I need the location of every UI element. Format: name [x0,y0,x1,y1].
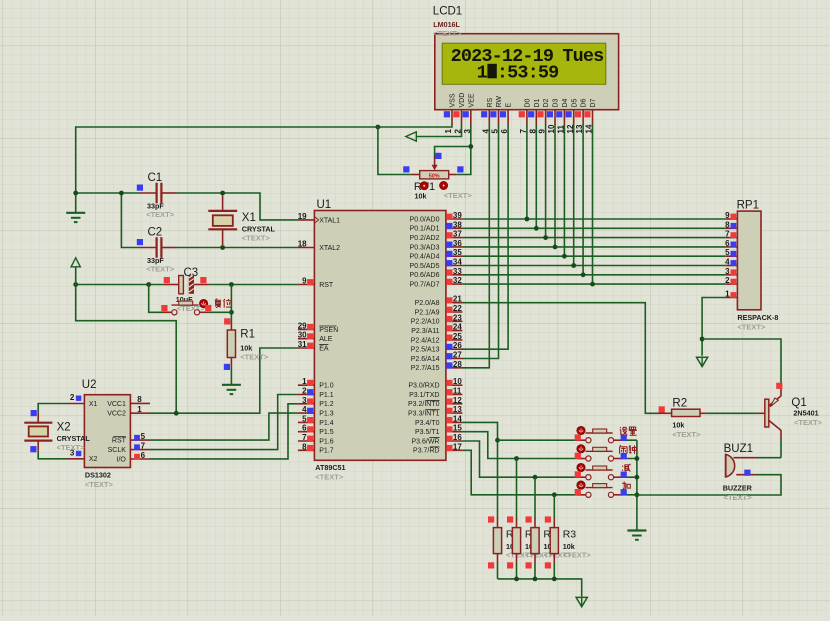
U1 pin 30 (ALE) [298,331,333,343]
U2 pin 3 (X2) [67,449,98,464]
wire C1 to XTAL1 [177,193,298,220]
value R2 10k [672,421,684,430]
wire LCD VEE to RV1 right [456,124,471,175]
label 复位 (reset) [215,299,231,308]
wire P3.7 to key4 [462,450,581,495]
wire key right to ground bus [621,458,637,460]
U1 pin 31 (EA) [298,340,329,352]
wire R3b top [516,459,518,520]
svg-text:10k: 10k [240,344,252,353]
svg-text:P3.0/RXD: P3.0/RXD [408,383,439,390]
svg-text:27: 27 [453,351,462,360]
U1 pin 26 (P2.5/A13) [411,341,463,353]
input terminal bottom [576,597,587,606]
junction D6/P0.6 [581,272,586,277]
junction reset button right/R1 [229,310,234,315]
U2 pin 7 (SCLK) [108,441,150,454]
svg-text:AT89C51: AT89C51 [315,463,345,472]
svg-text:P2.2/A10: P2.2/A10 [411,319,440,326]
U1 pin 28 (P2.7/A15) [411,360,463,372]
wire R1 bottom to ground [230,367,232,385]
wire reset button right [209,311,232,313]
svg-text:<TEXT>: <TEXT> [444,191,473,200]
svg-text:25: 25 [453,332,462,341]
U1 pin 38 (P0.1/AD1) [410,220,463,232]
U1 pin 16 (P3.6/WR) [411,433,462,445]
value BUZZER [723,484,753,493]
LCD pin 7 D0 [519,98,532,133]
svg-text:CRYSTAL: CRYSTAL [242,225,276,234]
U1 pin 18 (XTAL2) [298,240,340,252]
RP1 pin 4 [725,258,737,267]
svg-text:35: 35 [453,248,462,257]
RP1 pin 2 [725,276,737,285]
label C3 [184,267,199,279]
U1 pin 6 (P1.5) [298,424,334,436]
push button reset [164,301,209,315]
svg-text:31: 31 [298,340,307,349]
X1 <TEXT> [242,234,271,243]
junction P3.7/R3d [552,492,557,497]
svg-text:1: 1 [477,63,488,84]
U2 <TEXT> [85,480,114,489]
label RP1 [737,199,759,211]
capacitor C2 [140,237,177,258]
IC U1 AT89C51 body [314,211,446,461]
U1 pin 3 (P1.2) [298,396,334,408]
wire P0.4 bus to RP1 [462,255,725,257]
U2 pin 2 (X1) [67,393,98,408]
wire C1 node down to C2 [121,193,140,248]
svg-text:2N5401: 2N5401 [793,409,818,418]
value DS1302 [85,471,111,480]
junction VEE/wiper [468,144,473,149]
C3 <TEXT> [177,304,206,313]
push button set key [578,429,623,443]
wire LCD D7 vertical [592,124,594,284]
wire LCD VSS to ground net [76,124,452,213]
svg-text:R1: R1 [240,329,255,341]
svg-text:D6: D6 [581,98,588,107]
value CRYSTAL X2 [57,434,91,443]
label U1 [317,199,332,211]
junction ground/C1 row [73,191,78,196]
svg-text:D1: D1 [534,98,541,107]
R1 <TEXT> [240,353,269,362]
svg-text:18: 18 [298,240,307,249]
svg-text:RW: RW [496,96,503,108]
U2 pin 8 (VCC1) [107,395,150,408]
C1 state square [137,185,143,191]
potentiometer RV1 10k [412,157,456,180]
U1 pin 37 (P0.2/AD2) [410,230,463,242]
LCD pin 3 VEE [463,93,476,133]
svg-text:1: 1 [302,377,307,386]
wire R3 bottom [516,563,518,579]
junction power/C3 row [73,282,78,287]
wire X2 bottom to U2 X2 [38,451,67,459]
svg-text:5: 5 [725,248,730,257]
U2 pin 6 (I/O) [117,451,150,464]
svg-text:P2.6/A14: P2.6/A14 [411,356,440,363]
value R3 10k [544,542,556,551]
svg-text:D0: D0 [525,98,532,107]
U1 pin 2 (P1.1) [298,387,334,399]
svg-text:RP1: RP1 [737,199,759,211]
buzzer BUZ1 [726,454,756,477]
wire LCD RW to P2.6 [462,124,499,359]
svg-text:22: 22 [453,304,462,313]
U1 pin 8 (P1.7) [298,442,334,454]
svg-text:P1.0: P1.0 [319,383,334,390]
svg-text:P0.7/AD7: P0.7/AD7 [410,282,440,289]
wire key right to ground bus [621,476,637,478]
push button minus key [578,466,623,480]
U1 pin 33 (P0.6/AD6) [410,267,463,279]
wire to R1 top [230,285,232,322]
BUZ1 state square [744,470,750,476]
svg-text:19: 19 [298,212,307,221]
svg-text:10k: 10k [672,421,684,430]
wire buzzer bottom to ground bus [637,475,781,495]
svg-text:P1.3: P1.3 [319,411,334,418]
U1 pin 19 (XTAL1) [298,212,340,224]
label X2 [57,422,71,434]
svg-text:16: 16 [453,433,462,442]
value 10k [240,344,252,353]
plus key state squares [575,489,627,495]
value RV1 10k [415,192,427,201]
power terminal RP1 [697,357,708,366]
wire P3.6 to key3 [462,441,581,477]
svg-text:P0.4/AD4: P0.4/AD4 [410,254,440,261]
R3 group state squares [545,516,551,568]
label set key [620,427,637,436]
junction D0/P0.0 [525,217,530,222]
svg-text:23: 23 [453,313,462,322]
svg-text:DS1302: DS1302 [85,471,111,480]
U1 pin 27 (P2.6/A14) [411,351,463,363]
svg-text:CRYSTAL: CRYSTAL [57,434,91,443]
junction X1 bottom [220,245,225,250]
svg-text:P1.1: P1.1 [319,392,334,399]
svg-text:9: 9 [302,277,307,286]
junction power/VCC2 [174,411,179,416]
svg-text:4: 4 [481,129,490,134]
svg-text:1: 1 [444,129,453,134]
wire LCD D4 vertical [563,124,565,256]
resistor R2 [658,409,707,416]
svg-text:24: 24 [453,323,462,332]
wire P0.3 bus to RP1 [462,246,725,248]
wire U2 VCC2 to U1 EA [150,348,298,413]
svg-text:C1: C1 [148,172,163,184]
wire R3 rail to terminal [498,579,582,597]
junction C3 row/reset button [146,282,151,287]
value 33pF [147,202,164,211]
wire LCD E to P2.5 [462,124,508,349]
label R2 [672,398,687,410]
U1 pin 10 (P3.0/RXD) [408,377,462,389]
U1 pin 13 (P3.3/INT1) [408,405,462,417]
wire power row to C3 [76,284,164,286]
U1 pin 32 (P0.7/AD7) [410,276,463,288]
R3 group state squares [488,516,494,568]
junction key3/bus [635,475,640,480]
junction P3.5/R3b [514,456,519,461]
U1 pin 24 (P2.3/A11) [411,323,462,335]
LCD pin 12 D5 [566,98,579,133]
svg-text:P3.3/INT1: P3.3/INT1 [408,411,440,418]
svg-text:17: 17 [453,442,462,451]
U1 pin 15 (P3.5/T1) [415,424,462,436]
RP1 pin 7 [725,230,737,239]
svg-text:VSS: VSS [450,93,457,107]
U1 pin 17 (P3.7/RD) [413,442,462,454]
svg-text:P0.2/AD2: P0.2/AD2 [410,235,440,242]
label alarm key [620,445,637,454]
R3 group state squares [526,516,532,568]
value LM016L [433,20,460,29]
LCD pin 5 RW [490,96,503,134]
svg-text:X2: X2 [57,422,71,434]
svg-text:8: 8 [302,442,307,451]
label C1 [148,172,163,184]
svg-text:<TEXT>: <TEXT> [146,265,175,274]
svg-text:<TEXT>: <TEXT> [315,473,344,482]
svg-text:E: E [506,103,513,108]
U1 pin 34 (P0.5/AD5) [410,258,463,270]
svg-text:38: 38 [453,220,462,229]
svg-text:<TEXT>: <TEXT> [146,210,175,219]
svg-text:5: 5 [302,414,307,423]
wire LCD D2 vertical [545,124,547,238]
svg-text:P0.5/AD5: P0.5/AD5 [410,263,440,270]
set key state squares [575,434,627,440]
value R3 10k [563,542,575,551]
value 33pF [147,256,164,265]
svg-text:8: 8 [528,129,537,134]
wire LCD D0 vertical [526,124,528,219]
wire RV1 left to VSS net [378,127,412,175]
svg-text:SCLK: SCLK [108,447,127,454]
svg-text:1: 1 [137,405,142,414]
svg-text:D3: D3 [553,98,560,107]
svg-text:1: 1 [725,290,730,299]
svg-text:6: 6 [302,424,307,433]
LCD pin 4 RS [481,97,494,133]
wire LCD D3 vertical [554,124,556,247]
R2 state square [659,406,665,412]
R3 <TEXT> [525,551,554,560]
svg-text:6: 6 [500,129,509,134]
svg-text:<TEXT>: <TEXT> [242,234,271,243]
svg-text:X2: X2 [89,456,98,463]
wire Q1 collector to buzzer [780,438,782,458]
svg-text:39: 39 [453,211,462,220]
svg-text:RS: RS [487,97,494,107]
capacitor C1 [140,183,177,204]
svg-text:P1.6: P1.6 [319,438,334,445]
junction R3c/rail [533,577,538,582]
svg-text:D2: D2 [543,98,550,107]
svg-text:4: 4 [725,258,730,267]
svg-text:2: 2 [302,387,307,396]
svg-text:VEE: VEE [468,93,475,107]
LCD pin 14 D7 [584,98,597,133]
ground keys [627,531,646,540]
wire P3.5 to key2 [462,432,581,459]
svg-text:11: 11 [453,387,462,396]
label X1 [242,212,256,224]
U1 pin 14 (P3.4/T0) [415,414,462,426]
junction R3b/rail [514,577,519,582]
svg-text:BUZ1: BUZ1 [724,443,753,455]
svg-text:P3.5/T1: P3.5/T1 [415,429,440,436]
svg-text:15: 15 [453,424,462,433]
svg-text:P2.1/A9: P2.1/A9 [415,309,440,316]
wire P0.1 bus to RP1 [462,227,725,229]
svg-text:34: 34 [453,258,462,267]
R3 group state squares [507,516,513,568]
junction C3 row/R1 [229,282,234,287]
svg-text:EA: EA [319,345,329,352]
power terminal VDD [406,132,417,141]
svg-text:2: 2 [454,129,463,134]
svg-text:7: 7 [141,441,146,450]
label R3 [543,529,557,541]
svg-text:11: 11 [557,124,566,133]
wire LCD VDD to power terminal [416,124,462,137]
junction D1/P0.1 [534,226,539,231]
transistor Q1 2N5401 [757,389,781,439]
U1 pin 5 (P1.4) [298,414,334,426]
label R3 [525,529,539,541]
value R3 10k [506,542,518,551]
U1 pin 25 (P2.4/A12) [411,332,463,344]
resistor pack RP1 RESPACK-8 body [737,211,761,310]
svg-text:5: 5 [491,129,500,134]
wire power terminal to VCC2 net [76,267,177,413]
U1 pin 29 (PSEN) [298,321,339,333]
svg-text:P1.5: P1.5 [319,429,334,436]
wire P1.3 to U2 RST [150,413,298,440]
U1 <TEXT> [315,473,344,482]
svg-text:LCD1: LCD1 [433,6,462,18]
svg-text:<TEXT>: <TEXT> [433,29,462,38]
wire R3 bottom [553,563,555,579]
svg-text:P3.6/WR: P3.6/WR [411,438,439,445]
svg-text:50%: 50% [429,173,440,179]
wire P0.2 bus to RP1 [462,237,725,239]
wire VEE branch to RV1 wiper [435,147,471,159]
svg-text:36: 36 [453,239,462,248]
U1 pin 1 (P1.0) [298,377,334,389]
crystal X2 [24,413,52,451]
wire LCD D6 vertical [582,124,584,275]
svg-text:D4: D4 [562,98,569,107]
wire C2 to XTAL2 [177,247,298,249]
resistor R1 [227,321,235,367]
svg-text:RST: RST [112,438,127,445]
R2 <TEXT> [672,430,701,439]
svg-text:D5: D5 [571,98,578,107]
svg-text:10k: 10k [415,192,427,201]
svg-text:C2: C2 [148,227,163,239]
svg-text:30: 30 [298,331,307,340]
svg-text:12: 12 [453,396,462,405]
svg-text:32: 32 [453,276,462,285]
svg-text:9: 9 [725,211,730,220]
wire R3 bottom [534,563,536,579]
junction P3.4/key1 [495,438,500,443]
junction VSS/RV1 branch [376,125,381,130]
C2 <TEXT> [146,265,175,274]
svg-text:P3.7/RD: P3.7/RD [413,448,439,455]
value R3 10k [525,542,537,551]
label U2 [82,379,97,391]
svg-text:3: 3 [725,267,730,276]
svg-text:BUZZER: BUZZER [723,484,753,493]
minus key actuator [577,463,585,471]
label LCD1 [433,6,462,18]
svg-text::53:59: :53:59 [497,63,559,84]
IC U2 DS1302 body [84,395,130,468]
junction key2/bus [635,456,640,461]
RP1 pin 3 [725,267,737,276]
svg-text:P1.2: P1.2 [319,401,334,408]
svg-text:2: 2 [70,393,75,402]
label plus key [622,482,630,490]
svg-text:VDD: VDD [459,93,466,108]
svg-text:3: 3 [302,396,307,405]
svg-text:<TEXT>: <TEXT> [85,480,114,489]
RP1 <TEXT> [737,323,766,332]
label BUZ1 [724,443,753,455]
U1 pin 4 (P1.3) [298,405,334,417]
svg-text:10: 10 [453,377,462,386]
wire R3 bottom [497,563,499,579]
svg-text:7: 7 [302,433,307,442]
svg-text:X1: X1 [89,401,98,408]
junction D5/P0.5 [571,263,576,268]
LCD pin 10 D3 [547,98,560,133]
R3 <TEXT> [544,551,573,560]
wire buzzer top [756,457,781,459]
svg-text:Q1: Q1 [791,397,806,409]
LCD pin 8 D1 [528,98,541,133]
svg-text:12: 12 [566,124,575,133]
label R3 [506,529,520,541]
wire C3 to RST [209,284,298,286]
value 2N5401 [793,409,818,418]
svg-text:U1: U1 [317,199,332,211]
svg-text:4: 4 [302,405,307,414]
wire P1.1 to U2 SCLK [150,395,298,450]
LCD pin 9 D2 [537,98,550,133]
RV1 adjust buttons [420,182,447,190]
svg-text:P2.4/A12: P2.4/A12 [411,337,440,344]
svg-text:P2.0/A8: P2.0/A8 [415,300,440,307]
wire keys ground bus [636,440,638,530]
svg-text:2: 2 [725,276,730,285]
LCD pin 11 D4 [556,98,569,133]
push button plus key [578,484,623,498]
svg-text:P2.3/A11: P2.3/A11 [411,328,439,335]
RP1 pin 6 [725,239,737,248]
X2 <TEXT> [57,443,86,452]
value AT89C51 [315,463,345,472]
